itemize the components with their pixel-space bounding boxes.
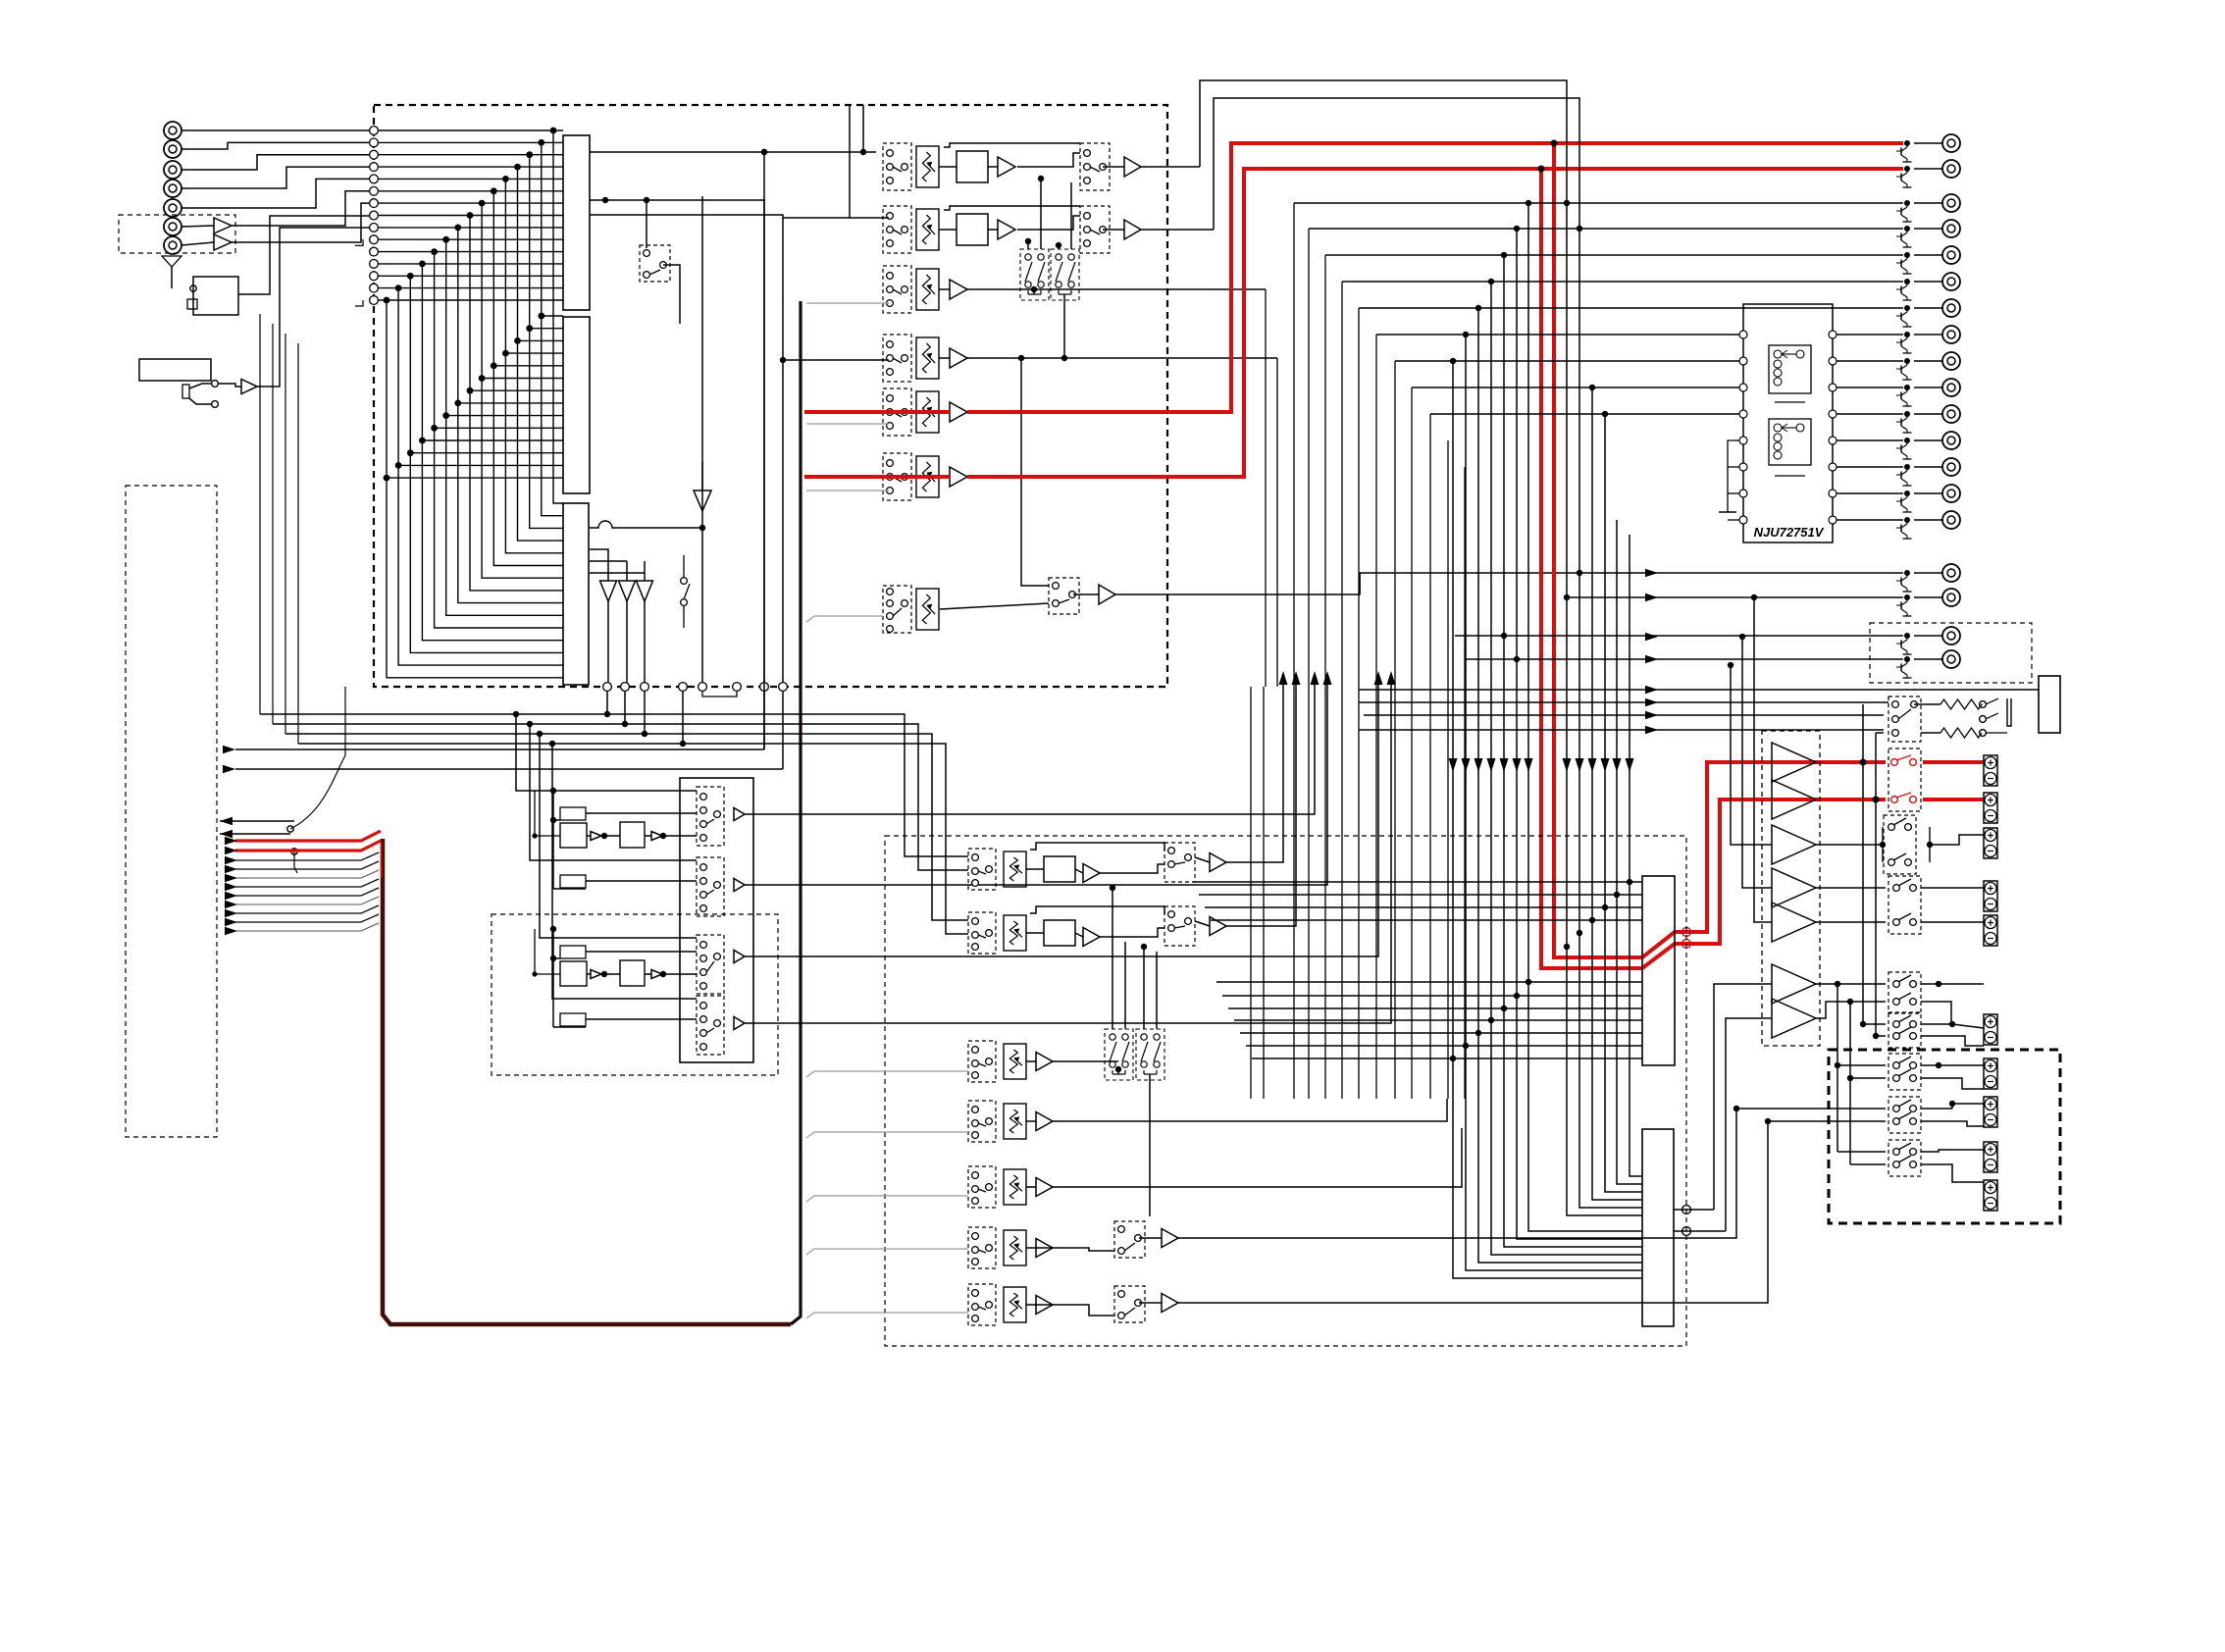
terminal FRONT R + xyxy=(1984,793,1997,823)
wire xyxy=(939,357,950,359)
RCA input jack J2 xyxy=(164,140,181,158)
wire xyxy=(1178,1109,1736,1238)
wire xyxy=(967,357,1277,359)
terminal SUR B L xyxy=(1984,1014,1997,1045)
record loop wire xyxy=(1375,335,1377,1099)
node xyxy=(1949,1021,1955,1027)
wire xyxy=(1141,166,1200,168)
wire xyxy=(534,929,536,974)
proc out amp 4 xyxy=(734,1017,745,1030)
record loop wire xyxy=(1358,308,1360,1099)
red overlay on bus xyxy=(381,842,383,878)
bus drop wire lower xyxy=(1528,982,1642,1231)
dashed box power amplifier xyxy=(1762,731,1820,1046)
wire hop xyxy=(590,521,702,528)
ferrite bar xyxy=(187,299,197,309)
red crossing pin xyxy=(1682,940,1691,949)
wire xyxy=(257,228,374,387)
node xyxy=(680,741,686,747)
record loop wire xyxy=(1411,387,1413,1099)
wire xyxy=(1276,358,1278,687)
connector block xyxy=(2039,676,2060,733)
wire xyxy=(552,744,697,999)
wire xyxy=(260,714,968,856)
hop bracket xyxy=(702,691,737,697)
node xyxy=(1733,1106,1739,1111)
wire xyxy=(1674,1209,1714,1211)
wire xyxy=(1309,228,1903,230)
wire xyxy=(1921,887,1984,889)
red signal path main L xyxy=(804,410,950,414)
terminal SP C2 xyxy=(1984,1097,1997,1127)
bold dashed box surround back panel xyxy=(1829,1050,2060,1223)
node xyxy=(660,971,666,977)
jack contact xyxy=(212,381,219,387)
red switch contact xyxy=(1910,759,1917,766)
record loop wire xyxy=(1394,361,1396,1099)
wire xyxy=(298,744,968,934)
node xyxy=(1577,570,1582,576)
output jack R5 xyxy=(1942,246,1960,264)
output switch aux xyxy=(1049,578,1079,614)
wire xyxy=(1837,984,1838,1152)
arrow xyxy=(225,927,237,935)
volume sur R xyxy=(1004,915,1026,951)
buffer amp cd xyxy=(950,280,967,299)
level resistor front1 xyxy=(560,807,586,820)
wire xyxy=(553,1026,586,1028)
wire xyxy=(745,678,1327,885)
wire xyxy=(1914,596,1942,598)
node xyxy=(860,149,866,155)
wire xyxy=(1914,466,1942,468)
wire xyxy=(1075,933,1083,937)
power amp A6 xyxy=(1772,964,1816,1004)
wire xyxy=(644,561,646,581)
wire xyxy=(1875,733,1877,800)
wire xyxy=(1914,228,1942,230)
wire xyxy=(1412,387,1739,388)
node xyxy=(1847,1075,1853,1081)
RCA input jack J7 xyxy=(164,236,181,254)
wire xyxy=(1837,466,1903,468)
node xyxy=(1488,279,1494,284)
wire xyxy=(1837,413,1903,415)
node xyxy=(1627,879,1632,885)
node xyxy=(1526,200,1531,206)
wire xyxy=(590,215,783,769)
wire xyxy=(1754,597,1772,922)
wire xyxy=(540,734,697,938)
wire xyxy=(1921,1150,1984,1152)
dashed box input selector matrix xyxy=(374,105,1167,687)
bus drop wire lower xyxy=(1478,1033,1642,1263)
wire xyxy=(1914,519,1942,521)
node xyxy=(190,285,196,291)
volume center xyxy=(1004,1044,1026,1079)
dsp block front2 xyxy=(620,822,645,848)
arrow xyxy=(1645,594,1658,601)
phones jack sleeve xyxy=(182,385,189,398)
wire xyxy=(682,691,684,744)
wire xyxy=(1921,1023,1952,1025)
volume zone R xyxy=(1004,1230,1026,1265)
terminal SP C1 xyxy=(1984,1058,1997,1089)
wire xyxy=(189,384,212,388)
arrow xyxy=(225,837,237,845)
summing bus bar lower xyxy=(1642,1129,1674,1326)
wire xyxy=(1075,869,1083,873)
wire xyxy=(1117,1069,1119,1074)
dashed box bass management xyxy=(492,914,778,1075)
level resistor front2 xyxy=(560,875,586,888)
wire xyxy=(1914,307,1942,309)
buffer amp sur R xyxy=(1083,928,1100,947)
arrow xyxy=(1525,758,1533,772)
buffer amp main R xyxy=(950,467,967,487)
wire xyxy=(662,973,697,975)
output jack RN5 xyxy=(1942,432,1960,449)
wire xyxy=(1112,888,1113,1029)
bus wire vertical xyxy=(791,301,801,1324)
red switch contact xyxy=(1891,759,1898,766)
input switch aux xyxy=(883,586,911,633)
wire xyxy=(1921,983,1939,985)
proc out switch 3 xyxy=(697,935,724,994)
bus feed wire xyxy=(806,1071,968,1077)
selector bus bar C xyxy=(563,503,589,685)
buffer amp phono xyxy=(950,348,967,368)
input switch zone R xyxy=(968,1227,996,1268)
bus branch wire xyxy=(235,914,379,922)
buffer fronta xyxy=(591,832,601,841)
wire xyxy=(663,265,680,324)
speaker relay center xyxy=(1884,815,1916,874)
surround processor outer box xyxy=(680,778,753,1062)
line amp sur L xyxy=(1210,853,1226,872)
arrow xyxy=(1387,671,1396,685)
proc out switch 2 xyxy=(697,857,724,916)
wire xyxy=(1359,307,1903,309)
bus drop wire lower xyxy=(1517,996,1642,1239)
wire xyxy=(1849,1002,1851,1164)
wire xyxy=(189,398,211,404)
node xyxy=(1038,176,1044,181)
wire xyxy=(1921,921,1984,923)
input switch cd xyxy=(883,266,911,313)
wire xyxy=(1053,1060,1118,1062)
wire xyxy=(1017,153,1080,167)
wire xyxy=(1100,864,1164,873)
buffer amp zone R xyxy=(1036,1239,1053,1258)
output switch sur R xyxy=(1164,906,1195,946)
node xyxy=(1936,981,1941,987)
red speaker wire R xyxy=(1923,798,1984,801)
wire xyxy=(940,603,1049,609)
wire xyxy=(862,105,864,152)
wire xyxy=(967,288,1266,290)
wire xyxy=(1566,203,1568,947)
wire xyxy=(1250,687,1252,1099)
IC NJU72751V xyxy=(1739,304,1837,542)
wire xyxy=(1359,689,2039,691)
node xyxy=(1463,332,1469,337)
buffer amp U2 xyxy=(241,380,257,394)
wire xyxy=(1195,857,1210,862)
zone switch R xyxy=(1114,1286,1145,1322)
node xyxy=(1056,242,1061,248)
dashed box front speaker relay xyxy=(1889,749,1921,811)
jack contact xyxy=(212,401,219,408)
output switch tape1 xyxy=(1080,143,1110,190)
wire vertical xyxy=(701,196,703,687)
bus drop wire lower xyxy=(1592,920,1642,1200)
buffer amp center xyxy=(1036,1053,1053,1071)
RCA input jack J1 xyxy=(164,122,181,139)
matrix rows group1 xyxy=(378,130,563,300)
red crossing pin xyxy=(1682,928,1691,937)
wire xyxy=(1816,844,1883,846)
bus drop wire lower xyxy=(1579,933,1642,1208)
matrix junction dots diagonal 2 xyxy=(384,313,545,482)
wire xyxy=(1149,1074,1151,1216)
wire xyxy=(1026,1060,1036,1062)
wire xyxy=(1921,1002,1951,1021)
node xyxy=(1614,892,1620,898)
node xyxy=(549,741,555,747)
wire xyxy=(806,616,883,622)
wire xyxy=(1103,166,1124,168)
red signal path main R xyxy=(804,475,950,479)
proc out switch 4 xyxy=(697,996,724,1055)
power amp A7 xyxy=(1772,999,1816,1038)
output switch sur L xyxy=(1164,843,1195,882)
wire xyxy=(626,561,628,581)
wire xyxy=(344,687,346,728)
wire xyxy=(1768,1120,1886,1122)
node xyxy=(761,149,767,155)
buffer frontb xyxy=(651,832,662,841)
muting triangle 3 xyxy=(637,581,653,601)
wire xyxy=(1714,984,1772,1210)
muting transistor Q7 xyxy=(1896,305,1912,327)
arrow xyxy=(225,856,237,864)
buffer amp aux xyxy=(1099,585,1115,604)
wire xyxy=(587,973,591,975)
muting transistor QN3 xyxy=(1896,385,1912,406)
volume main R xyxy=(916,456,939,497)
wire xyxy=(1876,1035,1886,1037)
dashed edge pin xyxy=(1682,1227,1691,1236)
proc out amp 1 xyxy=(734,808,745,821)
jack contact xyxy=(1980,730,1987,737)
wire xyxy=(644,601,646,687)
node xyxy=(1602,411,1608,417)
arrow xyxy=(1279,671,1288,685)
node xyxy=(550,817,556,823)
bus drop wire lower xyxy=(1630,882,1642,1176)
wire xyxy=(1674,1230,1726,1232)
wire xyxy=(1143,947,1145,1029)
bus drop wire lower xyxy=(1504,1008,1642,1247)
dsp block rear2 xyxy=(620,960,645,986)
matrix columns xyxy=(387,130,563,678)
ground stub xyxy=(355,300,363,306)
node xyxy=(780,357,786,363)
arrow in 1 xyxy=(220,817,233,825)
line amp tape2 xyxy=(1124,220,1141,239)
wire xyxy=(1359,573,1361,594)
arrow xyxy=(1487,758,1496,772)
zone switch L xyxy=(1114,1221,1145,1258)
red switch contact xyxy=(1891,797,1898,803)
node xyxy=(1873,797,1880,803)
wire xyxy=(1115,573,1903,594)
wire xyxy=(1726,1018,1772,1231)
wire xyxy=(1395,360,1739,362)
wire xyxy=(1214,98,1579,230)
input switch zone R2 xyxy=(968,1284,996,1325)
muting transistor QN7 xyxy=(1896,490,1912,512)
wire xyxy=(171,267,173,288)
input switch zone L xyxy=(968,1166,996,1208)
bus drop wire lower xyxy=(1453,1058,1642,1278)
arrow xyxy=(225,892,237,900)
zone out jack xyxy=(1942,627,1960,645)
wire hp ground xyxy=(1986,732,2007,734)
terminal FRONT L + xyxy=(1984,755,1997,786)
wire xyxy=(590,200,764,749)
node xyxy=(1018,355,1024,361)
node xyxy=(1739,634,1745,640)
bus drop wire xyxy=(1452,361,1454,1058)
wire xyxy=(1026,1248,1114,1251)
red drop L xyxy=(1554,143,1886,957)
switch contact xyxy=(291,849,297,854)
buffer rearb xyxy=(651,970,662,979)
wire xyxy=(586,812,697,814)
wire xyxy=(1026,868,1044,870)
muting transistor QN1 xyxy=(1896,332,1912,353)
node xyxy=(602,197,608,203)
wire xyxy=(939,288,950,290)
sur mute relay B xyxy=(1136,1029,1164,1080)
ground stub xyxy=(355,239,363,245)
wire xyxy=(218,384,241,387)
node xyxy=(1835,981,1840,987)
speaker relay C xyxy=(1889,1012,1921,1048)
buffer amp U1b xyxy=(214,234,232,250)
wire xyxy=(1982,703,1983,705)
wire xyxy=(1863,1023,1886,1025)
wire xyxy=(1178,1121,1768,1303)
node xyxy=(1475,1030,1481,1036)
sub out jack xyxy=(1942,589,1960,606)
wire xyxy=(1952,1104,1984,1109)
wire xyxy=(1914,202,1942,204)
wire xyxy=(1816,983,1886,985)
output switch tape2 xyxy=(1080,206,1110,253)
node xyxy=(537,731,543,737)
wire xyxy=(745,678,1315,814)
wire xyxy=(1914,572,1942,574)
wire xyxy=(1837,360,1903,362)
bus feed wire xyxy=(806,1249,968,1255)
wire xyxy=(1914,254,1942,256)
arrow xyxy=(1462,758,1471,772)
arrow xyxy=(1645,726,1658,734)
wire xyxy=(1058,245,1060,249)
node xyxy=(1501,252,1507,258)
arrow xyxy=(1645,655,1658,663)
wire xyxy=(944,206,1080,210)
arrow xyxy=(1601,758,1610,772)
muting transistor Q1 xyxy=(1896,140,1912,162)
filter block sur L xyxy=(1044,856,1075,882)
volume sub xyxy=(1004,1104,1026,1139)
muting transistor sub xyxy=(1896,570,1912,592)
input switch tape1 xyxy=(883,143,911,190)
node xyxy=(550,955,556,961)
dsp block rear1 xyxy=(560,961,587,986)
bus drop wire xyxy=(1503,255,1505,1008)
wire xyxy=(553,819,560,821)
wire xyxy=(1325,254,1903,256)
wire xyxy=(516,714,697,791)
volume zone L xyxy=(1004,1169,1026,1205)
wire xyxy=(1986,698,1998,704)
filter block tape2 xyxy=(957,214,988,245)
node xyxy=(1463,1043,1469,1049)
wire xyxy=(1921,1164,1984,1182)
wire xyxy=(1139,1237,1162,1239)
wire xyxy=(1195,921,1210,926)
wire xyxy=(1816,921,1886,923)
wire xyxy=(1027,241,1029,249)
node xyxy=(604,711,610,717)
volume zone R2 xyxy=(1004,1287,1026,1322)
arrow xyxy=(1374,671,1383,685)
wire xyxy=(1200,80,1567,203)
node xyxy=(1061,355,1067,361)
relay Q3 xyxy=(1889,1140,1921,1176)
wire xyxy=(590,572,645,574)
matrix rows group2 xyxy=(387,316,563,478)
wire xyxy=(1033,289,1035,294)
arrow xyxy=(1475,758,1483,772)
bus drop wire xyxy=(1616,520,1618,895)
arrow xyxy=(225,874,237,882)
wire xyxy=(553,957,560,959)
node xyxy=(1110,885,1115,891)
wire xyxy=(1026,932,1044,934)
node xyxy=(1488,1017,1494,1023)
wire xyxy=(181,142,370,149)
wire xyxy=(1103,229,1124,231)
node xyxy=(1450,1056,1456,1061)
red lever xyxy=(1896,793,1911,798)
wire xyxy=(626,601,628,687)
RCA input jack J3 xyxy=(164,161,181,179)
arrow xyxy=(1576,758,1584,772)
wire curve xyxy=(290,728,345,829)
muting transistor Q3 xyxy=(1896,200,1912,222)
node xyxy=(1589,917,1595,923)
selector bus bar B xyxy=(563,317,590,493)
wire xyxy=(1837,1064,1886,1066)
matrix junction dots diagonal 1 xyxy=(384,128,557,304)
arrow xyxy=(1626,758,1634,772)
